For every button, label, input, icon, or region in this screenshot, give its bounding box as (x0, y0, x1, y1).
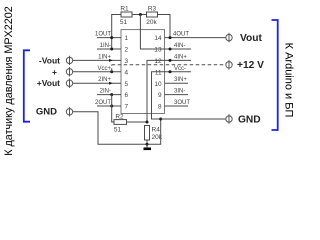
svg-text:3: 3 (125, 58, 129, 65)
junction dot 4IN+ (169, 59, 172, 62)
terminal +Vout (37, 78, 73, 88)
svg-text:10: 10 (154, 81, 162, 88)
svg-text:К датчику давления MPX2202: К датчику давления MPX2202 (3, 6, 15, 156)
wire pin 14 4OUT to Vout terminal (165, 37, 227, 39)
resistor R1 (120, 6, 132, 27)
wire top rail 1OUT to R1 (112, 15, 121, 50)
junction dot pin1/R1 (110, 36, 113, 39)
svg-text:2IN-: 2IN- (100, 89, 111, 95)
wire pin 6 (97, 94, 121, 96)
svg-text:R4: R4 (152, 127, 161, 134)
junction dot Vcc+ (110, 70, 113, 73)
svg-text:+: + (52, 67, 57, 77)
svg-text:R3: R3 (148, 6, 157, 13)
junction dot R2/R4 node (146, 121, 149, 124)
wire pin 7 (97, 105, 121, 107)
svg-text:1IN+: 1IN+ (98, 54, 111, 60)
wire pin 10 stub (165, 82, 189, 84)
wire pin 2 (97, 48, 121, 50)
wire pin 9 stub (165, 94, 189, 96)
resistor R3 (146, 6, 157, 27)
wire R4 to ground bus (146, 140, 148, 144)
svg-text:3IN+: 3IN+ (174, 77, 187, 83)
svg-text:4IN-: 4IN- (174, 43, 185, 49)
svg-text:12: 12 (154, 58, 162, 65)
junction dot pin7 (110, 105, 113, 108)
svg-text:9: 9 (158, 92, 162, 99)
wire R2 to node A (127, 121, 148, 123)
svg-text:Vcc+: Vcc+ (97, 66, 111, 72)
svg-text:-Vout: -Vout (39, 55, 60, 65)
svg-text:4IN+: 4IN+ (174, 54, 187, 60)
left blue bracket (24, 50, 30, 121)
wire +Vout to pin 5 (73, 82, 121, 84)
svg-text:1: 1 (125, 35, 129, 42)
svg-text:20k: 20k (146, 19, 157, 26)
label anchor arrow pin5 (109, 82, 113, 85)
ground symbol (144, 144, 152, 150)
resistor R4 (145, 126, 163, 142)
wire pin 12 4IN+ vertical A (147, 60, 191, 122)
svg-text:11: 11 (155, 69, 162, 76)
svg-text:51: 51 (120, 19, 128, 26)
junction dot 4IN- (169, 48, 172, 51)
junction dot Vcc- (169, 70, 172, 73)
svg-text:1IN-: 1IN- (100, 43, 111, 49)
svg-text:2: 2 (125, 47, 129, 54)
wire -Vout to pin 3 (73, 59, 121, 61)
svg-text:R1: R1 (120, 6, 129, 13)
wire pin 1 (97, 37, 121, 39)
wire R1 to R3 (132, 14, 147, 16)
right blue bracket (272, 20, 278, 130)
junction dot rail (159, 118, 162, 121)
junction dot ground bus (146, 143, 149, 146)
terminal -Vout (39, 55, 73, 65)
svg-text:14: 14 (154, 35, 162, 42)
svg-text:К Arduino и БП: К Arduino и БП (283, 43, 295, 118)
svg-text:GND: GND (36, 107, 57, 118)
junction dot 4OUT (169, 36, 172, 39)
svg-text:6: 6 (125, 92, 129, 99)
terminal + (52, 67, 73, 77)
terminal GND right (226, 114, 261, 125)
svg-text:Vout: Vout (240, 33, 262, 44)
junction dot pin6 (110, 93, 113, 96)
wire pin 8 stub (165, 105, 189, 107)
svg-text:4OUT: 4OUT (173, 32, 189, 38)
svg-text:+12 V: +12 V (237, 60, 264, 71)
junction dot pin2 (110, 48, 113, 51)
node between R1 and R3 (139, 13, 142, 16)
terminal GND left (36, 107, 73, 118)
wire + to pin 4 Vcc+ (73, 71, 121, 73)
label anchor arrow pin3 (109, 59, 113, 62)
wire pin6/pin7 to R2 (112, 95, 114, 122)
svg-text:+Vout: +Vout (37, 78, 60, 88)
svg-text:2IN+: 2IN+ (98, 77, 111, 83)
svg-text:8: 8 (158, 104, 162, 111)
svg-text:1OUT: 1OUT (95, 32, 111, 38)
svg-text:3IN-: 3IN- (174, 89, 185, 95)
wire ground rail to GND terminal (161, 118, 226, 120)
svg-text:13: 13 (154, 47, 162, 54)
svg-text:51: 51 (114, 127, 122, 134)
dashed +12V net (112, 65, 226, 72)
wire GND left to bottom bus (73, 112, 161, 145)
svg-text:7: 7 (125, 104, 129, 111)
op-amp U1 LM324 body (121, 30, 165, 114)
svg-text:GND: GND (238, 115, 261, 126)
resistor R2 (114, 113, 127, 133)
terminal +12 V (226, 60, 264, 71)
svg-text:4: 4 (125, 69, 129, 76)
wire node X to pin 13 4IN- (140, 15, 191, 50)
terminal Vout right (226, 33, 263, 44)
svg-text:3OUT: 3OUT (174, 100, 190, 106)
wire R3 to 4OUT node (158, 15, 171, 38)
svg-text:Vcc-: Vcc- (174, 66, 186, 72)
wire pin 11 Vcc- vertical B to ground rail (152, 72, 192, 119)
svg-text:R2: R2 (115, 113, 124, 120)
svg-text:5: 5 (125, 81, 129, 88)
svg-text:2OUT: 2OUT (95, 100, 111, 106)
